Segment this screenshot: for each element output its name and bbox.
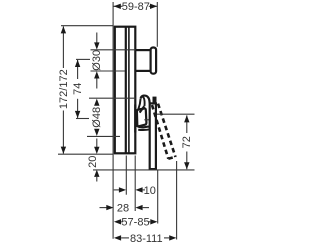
lever pivot boss xyxy=(135,105,153,133)
dimension 20 xyxy=(87,139,100,182)
lever handle (rest position) xyxy=(150,103,156,169)
dimension 57-85 xyxy=(114,171,158,229)
dimension 72 (right) xyxy=(157,114,195,169)
knob stem xyxy=(135,50,150,71)
svg-text:72: 72 xyxy=(181,136,193,148)
escutcheon plate xyxy=(115,26,136,154)
lever hook neck xyxy=(138,96,155,113)
dimension 59-87 (top) xyxy=(114,1,158,47)
dimension 28 xyxy=(100,203,150,215)
dimension 74 xyxy=(72,59,90,118)
dimension Ø48 xyxy=(87,98,136,136)
knob end cap xyxy=(151,48,157,74)
svg-text:59-87: 59-87 xyxy=(122,1,150,13)
dimension 83-111 xyxy=(114,161,177,245)
svg-text:Ø30: Ø30 xyxy=(91,50,103,71)
lever handle rotated (dashed) xyxy=(152,104,176,159)
svg-text:20: 20 xyxy=(87,156,99,168)
svg-text:57-85: 57-85 xyxy=(121,217,149,229)
dimension 172/172 (left) xyxy=(58,26,113,155)
svg-text:Ø48: Ø48 xyxy=(91,107,103,128)
bottom reference line (lever tip level) xyxy=(93,169,195,171)
svg-text:10: 10 xyxy=(144,185,156,197)
svg-text:28: 28 xyxy=(117,203,129,215)
svg-text:172/172: 172/172 xyxy=(58,69,70,109)
wall line xyxy=(112,2,114,239)
dimension Ø30 xyxy=(91,33,136,89)
dimension 10 xyxy=(114,156,156,212)
svg-text:74: 74 xyxy=(72,83,84,95)
svg-text:83-111: 83-111 xyxy=(130,233,163,245)
pivot axis line xyxy=(144,119,153,121)
